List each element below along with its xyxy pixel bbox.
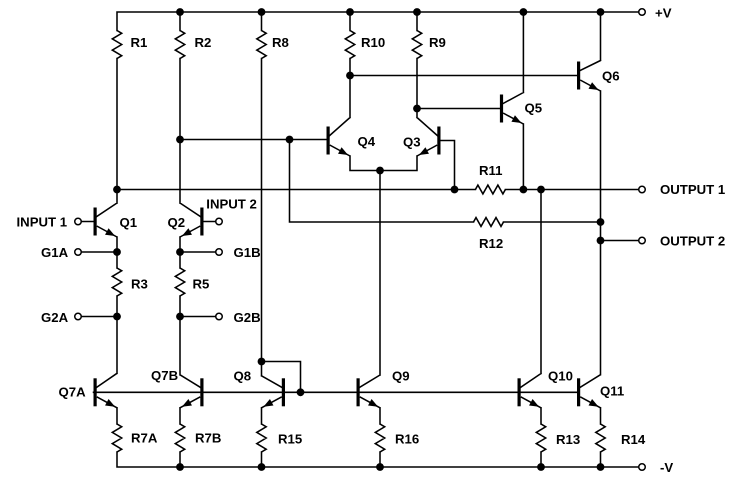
svg-text:R16: R16 <box>395 432 419 447</box>
svg-text:Q1: Q1 <box>120 215 138 230</box>
svg-text:Q8: Q8 <box>234 368 252 383</box>
svg-text:R7B: R7B <box>195 430 221 445</box>
svg-text:R13: R13 <box>556 432 580 447</box>
svg-text:Q3: Q3 <box>403 134 421 149</box>
svg-text:G1A: G1A <box>41 245 69 260</box>
svg-text:Q2: Q2 <box>168 215 186 230</box>
svg-text:R11: R11 <box>479 163 502 178</box>
svg-text:R5: R5 <box>193 276 210 291</box>
svg-text:Q4: Q4 <box>358 134 376 149</box>
svg-text:Q10: Q10 <box>548 368 573 383</box>
svg-text:Q9: Q9 <box>392 368 410 383</box>
svg-text:R7A: R7A <box>131 430 158 445</box>
svg-text:Q7A: Q7A <box>59 384 87 399</box>
svg-text:R14: R14 <box>621 432 646 447</box>
svg-text:Q6: Q6 <box>602 68 620 83</box>
svg-text:R1: R1 <box>131 35 148 50</box>
svg-text:Q11: Q11 <box>600 383 624 398</box>
svg-text:-V: -V <box>660 460 673 475</box>
svg-text:Q7B: Q7B <box>151 368 178 383</box>
svg-text:+V: +V <box>655 6 672 21</box>
svg-text:INPUT 1: INPUT 1 <box>17 214 68 229</box>
svg-text:R2: R2 <box>195 35 212 50</box>
svg-text:R12: R12 <box>479 236 503 251</box>
svg-text:G2B: G2B <box>234 310 261 325</box>
svg-text:R8: R8 <box>272 35 289 50</box>
svg-text:R3: R3 <box>131 276 148 291</box>
svg-text:Q5: Q5 <box>525 100 543 115</box>
svg-text:G1B: G1B <box>234 245 261 260</box>
svg-text:R10: R10 <box>361 35 385 50</box>
svg-text:R15: R15 <box>278 431 302 446</box>
svg-text:OUTPUT 2: OUTPUT 2 <box>660 233 725 248</box>
svg-text:INPUT 2: INPUT 2 <box>206 196 257 211</box>
svg-text:OUTPUT 1: OUTPUT 1 <box>660 182 725 197</box>
svg-text:R9: R9 <box>429 35 446 50</box>
svg-text:G2A: G2A <box>41 310 69 325</box>
